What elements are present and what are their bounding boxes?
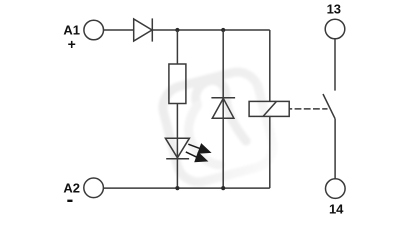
LED light arrow 2 [186,152,207,162]
wire contact upper [334,39,336,91]
svg-text:+: + [68,36,76,52]
diode D3 cathode bar [211,97,235,99]
wire resistor through LED to bottom rail [176,104,178,189]
diode D1 triangle [134,19,152,41]
wire resistor branch upper [176,30,178,64]
wire freewheel diode branch [222,30,224,188]
LED D2 cathode bar [166,158,189,160]
junction node bottom right [221,186,225,190]
diode D1 cathode bar [151,18,153,41]
LED D2 triangle [165,138,189,158]
terminal 14 circle [326,179,346,199]
diode D3 triangle [212,98,234,118]
terminal A2 circle [84,178,104,198]
resistor R1 [169,64,186,104]
wire contact lower [334,119,336,179]
mechanical link dashed wire [289,108,327,110]
svg-text:13: 13 [327,1,341,16]
wire top rail [152,29,269,31]
junction node top left [175,28,179,32]
wire relay branch upper [269,30,271,101]
wire A1 to diode D1 [104,29,134,31]
junction node bottom left [175,186,179,190]
junction node top right [221,28,225,32]
wire relay branch lower [269,116,271,188]
relay coil K1 [249,101,289,116]
svg-text:A2: A2 [63,181,80,196]
terminal A1 circle [84,20,104,40]
terminal 13 circle [325,19,345,39]
svg-text:14: 14 [329,202,344,217]
minus sign [67,200,72,202]
relay coil diagonal [263,101,276,116]
wire bottom rail [103,187,269,189]
LED light arrow 1 [188,144,210,153]
switch contact blade [323,94,335,119]
